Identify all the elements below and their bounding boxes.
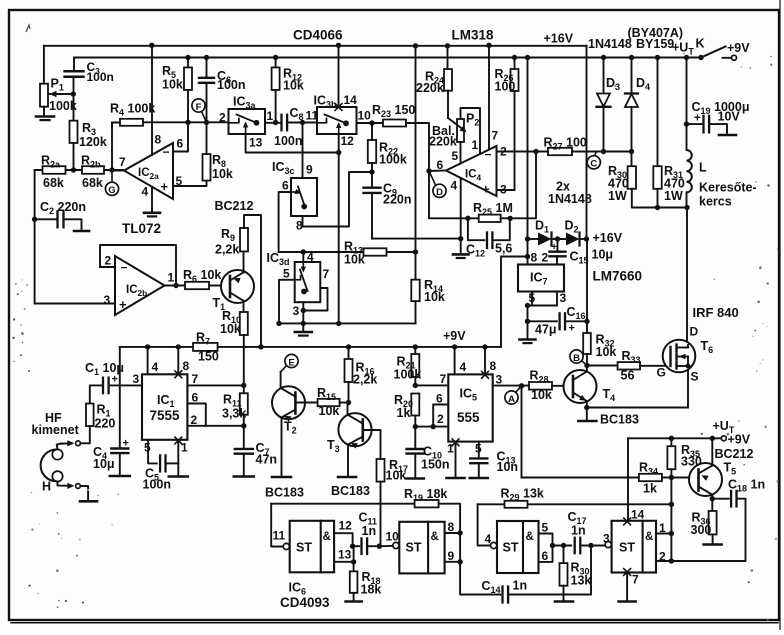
svg-text:C1 10μ: C1 10μ (85, 361, 124, 377)
wire left loop down (34, 170, 36, 304)
diode D1 (528, 238, 539, 240)
svg-text:2,2k: 2,2k (353, 373, 377, 387)
wire IC2b pin2 stub (100, 266, 115, 268)
wire gate2 pin8 (445, 532, 461, 534)
wire R13 line (279, 251, 416, 253)
svg-text:kercs: kercs (699, 195, 732, 209)
capacitor C12 loop (468, 218, 484, 240)
svg-text:12: 12 (341, 134, 355, 148)
svg-text:10k: 10k (344, 253, 365, 267)
ground under R30 (555, 600, 573, 603)
transistor T1 (221, 270, 254, 303)
svg-text:5: 5 (144, 441, 151, 455)
svg-text:3: 3 (496, 373, 503, 387)
svg-text:7555: 7555 (150, 408, 181, 423)
svg-text:7: 7 (440, 372, 447, 386)
svg-text:BC212: BC212 (715, 447, 754, 461)
svg-text:S: S (691, 370, 699, 384)
wire R19 oscillator line (271, 503, 415, 505)
wire switch ground line (279, 322, 416, 324)
wire T3 base to R17 (363, 430, 381, 459)
svg-text:100n: 100n (217, 78, 246, 92)
resistor R10 (240, 312, 248, 335)
wire IC1 pin7 line (187, 384, 243, 386)
analog switch IC3d (295, 262, 321, 302)
svg-text:220n: 220n (383, 193, 412, 207)
wire R3 to R2 junction (73, 143, 75, 170)
svg-text:14: 14 (631, 508, 645, 522)
wire R29 line (478, 503, 505, 505)
svg-text:R29 13k: R29 13k (501, 487, 544, 503)
svg-text:&: & (323, 531, 331, 543)
node B (582, 361, 588, 366)
svg-text:BY159: BY159 (636, 37, 674, 51)
wire C8 right (287, 122, 317, 124)
svg-text:+9V: +9V (728, 433, 751, 447)
wire T4/T6 source line (587, 407, 688, 409)
svg-text:−: − (485, 148, 492, 162)
wire C1 right to IC1 pin3 (109, 384, 142, 386)
svg-text:3: 3 (603, 532, 610, 546)
capacitor C2 (56, 211, 58, 227)
svg-text:B: B (573, 353, 580, 364)
svg-text:+9V: +9V (443, 329, 466, 343)
wire IC5 pin7 line (415, 384, 448, 386)
resistor R22 with leads (371, 123, 373, 140)
svg-text:1n: 1n (362, 524, 377, 538)
resistor R3 (70, 121, 78, 143)
inductor L search coil (687, 150, 692, 192)
svg-text:7: 7 (323, 267, 330, 281)
analog switch IC3a (229, 109, 266, 134)
svg-text:6: 6 (282, 179, 289, 193)
resistor R11 (243, 385, 245, 393)
resistor R36 (711, 499, 713, 511)
svg-text:100n: 100n (143, 478, 172, 492)
node G (111, 170, 113, 182)
resistor R13 (364, 248, 387, 255)
wire IC1 pin2 line (187, 425, 243, 427)
wire IC2a pin4 ground (151, 187, 153, 212)
node E (281, 366, 287, 373)
ground under C7 (234, 475, 254, 478)
svg-text:8: 8 (490, 359, 497, 373)
wire IC3c pin6 (279, 192, 291, 252)
wire C5 right / pin1 (166, 462, 179, 464)
analog switch IC3c (291, 178, 317, 216)
svg-text:6: 6 (542, 549, 549, 563)
wire gate2 input (379, 545, 393, 547)
svg-text:18k: 18k (361, 583, 382, 597)
wire gate1 input line (271, 504, 283, 547)
wire IC1 pin5 stub (148, 440, 157, 464)
capacitor C17 (574, 538, 576, 554)
capacitor C3 (65, 70, 84, 72)
wire C1 left to R1 (90, 385, 103, 403)
wire R33 line from node B (587, 365, 618, 367)
wire T1 collector to R9 (243, 228, 245, 272)
svg-text:1k: 1k (397, 406, 411, 420)
ground under C10 (407, 477, 424, 480)
wire IC3a pin1 to C8 (265, 122, 281, 124)
svg-text:100k: 100k (394, 368, 422, 382)
capacitor C15 (557, 239, 559, 251)
transistor T4 (564, 370, 597, 403)
svg-text:1: 1 (472, 138, 479, 152)
wire R14 bottom (415, 301, 417, 323)
op-amp IC2a (124, 143, 173, 199)
wire IC2b pin3 input (35, 303, 115, 305)
svg-text:7: 7 (119, 155, 126, 169)
svg-text:TL072: TL072 (122, 221, 161, 236)
wire +9V output rail (628, 437, 721, 439)
transistor T3 (338, 413, 371, 446)
ground under C4 (110, 475, 130, 478)
wire IC2a output to node G (112, 170, 124, 172)
svg-text:−: − (163, 145, 170, 159)
wire R19 right down to C14 (439, 504, 501, 595)
wire T5 emitter node (711, 495, 713, 499)
svg-text:10k: 10k (531, 388, 552, 402)
svg-text:330: 330 (681, 455, 702, 469)
svg-text:100n: 100n (87, 70, 114, 84)
svg-text:68k: 68k (43, 176, 64, 190)
wire IC5 pin4 (454, 347, 456, 375)
svg-text:9: 9 (306, 163, 313, 177)
wire node A drop (521, 386, 523, 478)
wire C3 bottom to node (73, 77, 75, 94)
svg-text:1W: 1W (608, 189, 627, 203)
svg-text:4: 4 (142, 185, 149, 199)
capacitor C4 (111, 447, 128, 449)
svg-text:+: + (551, 241, 557, 253)
svg-text:3: 3 (293, 304, 300, 318)
wire R23 right to IC4 node (406, 123, 468, 218)
svg-text:120k: 120k (79, 135, 107, 149)
wire IC3c pin8 route (303, 172, 373, 227)
svg-text:C: C (590, 159, 597, 170)
svg-text:C2 220n: C2 220n (40, 200, 86, 216)
wire T5 collector (711, 438, 713, 465)
wire IC4 pin4 ground (460, 178, 462, 253)
node D (429, 171, 436, 185)
svg-text:12: 12 (339, 519, 353, 533)
wire IC1 pin4 (147, 347, 149, 374)
svg-text:kimenet: kimenet (32, 423, 80, 437)
resistor R15 (295, 402, 317, 404)
resistor R27 (548, 148, 572, 155)
ground under IC2a (144, 212, 160, 215)
gate IC6a (290, 521, 334, 573)
junction dots (149, 43, 154, 48)
resistor R30 (13k) (563, 546, 565, 564)
svg-text:10: 10 (358, 109, 372, 123)
wire R9 top to rail drop (244, 215, 261, 347)
svg-text:ST: ST (619, 541, 635, 555)
svg-text:R6 10k: R6 10k (183, 268, 221, 284)
svg-text:68k: 68k (82, 176, 103, 190)
ground under IC4 pin4 (453, 253, 469, 256)
svg-text:LM318: LM318 (452, 28, 495, 43)
resistor R16 with leads (348, 347, 350, 359)
svg-text:13k: 13k (571, 574, 592, 588)
svg-text:10μ: 10μ (592, 248, 614, 262)
svg-text:1n: 1n (513, 579, 528, 593)
wire +9V feed vertical (501, 257, 528, 347)
svg-text:10k: 10k (220, 322, 241, 336)
node C (595, 152, 597, 157)
svg-text:2: 2 (542, 251, 549, 265)
svg-text:1N4148: 1N4148 (588, 37, 632, 51)
wire to C16 node (527, 306, 529, 322)
svg-text:10k: 10k (424, 290, 445, 304)
svg-text:BC212: BC212 (215, 199, 254, 213)
potentiometer P2 (457, 119, 464, 142)
resistor R2a (43, 166, 66, 174)
svg-text:2,2k: 2,2k (215, 243, 239, 257)
svg-text:8: 8 (448, 520, 455, 534)
wire IC3d pin3 down (302, 302, 304, 323)
svg-text:6: 6 (436, 392, 443, 406)
ground under C19 (719, 134, 736, 137)
wire gate1 pin13 (334, 561, 354, 563)
svg-text:5,6: 5,6 (495, 242, 512, 256)
wire +Ut rail (74, 57, 701, 59)
svg-text:10n: 10n (497, 460, 519, 474)
svg-text:220: 220 (95, 417, 116, 431)
svg-text:BC183: BC183 (265, 486, 304, 500)
capacitor C1 (102, 378, 104, 394)
gate IC6c (497, 521, 539, 573)
wire IC2a pin8 supply (151, 45, 153, 155)
wire IC2a pin5 to R8 (173, 181, 207, 187)
capacitor C18 (712, 498, 729, 500)
wire C2 to ground (64, 219, 81, 229)
svg-text:9: 9 (448, 549, 455, 563)
svg-text:6: 6 (177, 137, 184, 151)
svg-text:E: E (288, 357, 294, 368)
wire +16V rail (top) (44, 45, 587, 47)
ground under T2 (272, 476, 291, 479)
resistor R29 (505, 501, 528, 508)
svg-text:1: 1 (181, 441, 188, 455)
wire IC4 output pin6 (429, 170, 446, 173)
wire R6 to T1 base (210, 285, 230, 287)
diode D3 (603, 58, 605, 94)
svg-text:6: 6 (437, 158, 444, 172)
svg-text:1: 1 (659, 521, 666, 535)
wire IC5 pin5 / C13 (478, 442, 480, 457)
wire C2 branch (35, 218, 57, 220)
resistor R1 (86, 404, 94, 427)
wire C14 right up to gate4 input (508, 546, 591, 595)
svg-text:5: 5 (452, 149, 459, 163)
svg-text:&: & (645, 531, 653, 543)
svg-text:4: 4 (152, 360, 159, 374)
svg-text:BC183: BC183 (331, 484, 370, 498)
svg-text:7: 7 (492, 129, 499, 143)
svg-text:100k: 100k (379, 153, 407, 167)
op-amp IC4 (446, 146, 497, 196)
resistor R7 (193, 343, 218, 351)
capacitor C19 (686, 58, 688, 151)
svg-text:G: G (657, 366, 666, 380)
capacitor C7 (243, 426, 245, 449)
svg-text:+: + (112, 374, 118, 386)
wire gate4 pin7 ground (626, 573, 628, 601)
svg-text:3,3k: 3,3k (222, 407, 246, 421)
wire R2 row (35, 169, 124, 171)
wire gate3 pin6 (539, 546, 553, 562)
resistor R18 (350, 571, 358, 593)
svg-text:1k: 1k (643, 482, 657, 496)
ground under C2 (74, 230, 89, 233)
svg-text:13: 13 (338, 548, 352, 562)
svg-text:2: 2 (500, 145, 507, 159)
wire gate2 pin9 (445, 561, 461, 563)
wire gate4 pin2 (656, 560, 671, 562)
ground under P1 (36, 115, 54, 118)
gate IC6d (612, 521, 656, 573)
svg-text:150n: 150n (421, 458, 450, 472)
wire C3 top stub (73, 58, 75, 71)
wire IC1 pin6/2 tie (187, 404, 205, 426)
wire R1 to jack tip (81, 426, 90, 443)
wire R4 left drop to node G (112, 123, 120, 127)
resistor R4 (120, 119, 143, 126)
svg-text:4: 4 (451, 179, 458, 193)
svg-text:11: 11 (306, 109, 319, 123)
capacitor C16 (528, 320, 557, 322)
resistor R6 (185, 282, 209, 289)
wire +16V down to C16/R32 (586, 239, 588, 333)
wire gate3 pin5 (539, 534, 553, 546)
wire +16V vertical right (586, 46, 588, 239)
ground under R36 (704, 543, 722, 546)
svg-text:D: D (436, 187, 443, 198)
ground under IC3d (302, 323, 304, 330)
svg-text:3: 3 (104, 293, 111, 307)
svg-text:150: 150 (198, 350, 219, 364)
svg-text:1W: 1W (664, 189, 683, 203)
svg-text:BC183: BC183 (600, 413, 639, 427)
svg-text:56: 56 (621, 369, 635, 383)
wire T3 emitter ground (347, 445, 349, 476)
svg-text:5: 5 (529, 291, 536, 305)
wire IC3b pin12 down (338, 134, 340, 323)
wire node to R3 (73, 94, 75, 121)
resistor R24 with leads (447, 46, 449, 69)
svg-text:100: 100 (495, 80, 516, 94)
mosfet T6 IRF840 (663, 340, 696, 373)
wire R15/R16 node to T3 (340, 402, 349, 404)
scan noise speckles (17, 293, 19, 295)
svg-text:2: 2 (437, 412, 444, 426)
wire node F line (143, 121, 229, 123)
connector HF output jack (52, 449, 62, 459)
svg-text:555: 555 (457, 410, 480, 425)
wire C17 node line (553, 545, 572, 547)
svg-text:L: L (699, 161, 707, 175)
svg-text:14: 14 (344, 93, 358, 107)
svg-text:47μ: 47μ (535, 323, 557, 337)
wire T2 emitter to ground (281, 418, 283, 476)
svg-text:2: 2 (105, 254, 112, 268)
wire T4 emitter node (586, 401, 588, 408)
svg-text:IRF 840: IRF 840 (693, 305, 739, 320)
svg-text:300: 300 (691, 523, 712, 537)
wire IC3b pin14 supply (338, 45, 340, 107)
svg-text:+: + (119, 297, 127, 312)
svg-text:10: 10 (386, 530, 400, 544)
resistor R20 (411, 394, 419, 416)
resistor R34 (639, 474, 662, 481)
svg-text:220k: 220k (429, 135, 457, 149)
svg-text:+9V: +9V (727, 41, 750, 55)
svg-text:3: 3 (500, 183, 507, 197)
svg-text:1n: 1n (571, 524, 586, 538)
svg-text:6: 6 (192, 391, 199, 405)
ground under R18 (346, 600, 362, 603)
svg-text:10k: 10k (283, 79, 304, 93)
gate IC6b (399, 522, 444, 574)
resistor R31 (470 1W) (657, 58, 659, 167)
wire IC5 pin8 (484, 347, 486, 375)
wire IC2b feedback loop (100, 245, 176, 286)
svg-text:R23 150: R23 150 (372, 103, 415, 119)
svg-text:ST: ST (503, 541, 519, 555)
svg-text:H: H (42, 480, 51, 494)
resistor R9 (240, 228, 248, 252)
svg-text:LM7660: LM7660 (593, 269, 643, 284)
svg-text:2: 2 (219, 111, 226, 125)
resistor R32 (583, 333, 591, 354)
svg-text:1: 1 (267, 109, 274, 123)
svg-text:3: 3 (133, 372, 140, 386)
wire IC2a pin6 to node F (173, 122, 188, 151)
svg-text:8: 8 (155, 133, 162, 147)
wire C4 drop (119, 347, 121, 448)
svg-text:D: D (690, 325, 699, 339)
resistor R2b (82, 166, 104, 174)
wire IC4 pin2 line node C (497, 151, 633, 153)
wire IC3d pin7 to pin3 (303, 288, 327, 311)
wire +16V drop to R13/R14 (415, 46, 417, 280)
svg-text:+16V: +16V (593, 231, 623, 245)
wire T4 collector (586, 366, 588, 372)
wire T1 emitter to R10 (243, 301, 245, 312)
wire R10 bottom (243, 335, 245, 385)
svg-text:2: 2 (659, 550, 666, 564)
transistor T2 (272, 386, 305, 419)
ground under jack (80, 500, 97, 503)
ground under IC1 pin1 (169, 475, 188, 478)
diode D2 (566, 233, 580, 246)
wire IC3d pin5 to ground line (279, 280, 295, 324)
svg-text:R4 100k: R4 100k (110, 102, 155, 118)
svg-text:A: A (508, 394, 515, 405)
capacitor C14 (501, 587, 503, 603)
svg-text:10k: 10k (319, 404, 340, 418)
IC7 LM7660 box (518, 265, 564, 292)
wire R17 bottom to C11 node (380, 482, 382, 547)
svg-text:4: 4 (485, 532, 492, 546)
svg-text:10k: 10k (212, 167, 233, 181)
wire IC3a pin13 control (246, 134, 339, 153)
svg-text:+: + (123, 438, 129, 450)
svg-text:+16V: +16V (544, 32, 574, 46)
capacitor C8 (280, 115, 282, 131)
